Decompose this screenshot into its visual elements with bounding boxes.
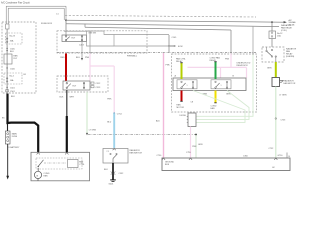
- relay1 top bus: [64, 30, 92, 32]
- fuse No.23 (dashed): [6, 33, 23, 44]
- pale green net: [193, 55, 253, 123]
- relay2 output dark wire: [66, 90, 68, 116]
- svg-text:FIREWALL: FIREWALL: [127, 55, 138, 58]
- connector with flag: [272, 78, 280, 87]
- svg-text:GRN: GRN: [267, 67, 272, 69]
- svg-text:FAN MOTOR: FAN MOTOR: [284, 82, 296, 85]
- svg-text:RED: RED: [60, 57, 65, 59]
- drop to green at x253: [252, 27, 254, 55]
- svg-text:RELAY: RELAY: [176, 60, 183, 63]
- diode box: [188, 113, 196, 127]
- black wire BLK: [8, 94, 39, 153]
- yellow-green output of right relay: [275, 57, 277, 63]
- black branch to fusible link: [7, 124, 9, 131]
- bus B: [66, 24, 279, 27]
- svg-text:BLU: BLU: [107, 122, 111, 124]
- condenser fan motor box: [31, 152, 90, 181]
- long pink wire: [163, 53, 165, 158]
- green wire into relay4: [215, 62, 217, 80]
- svg-text:GRN: GRN: [226, 94, 231, 96]
- fuse No.52: [269, 31, 276, 39]
- wire below fusible link: [7, 144, 9, 177]
- svg-text:BLU: BLU: [76, 57, 80, 59]
- relay2 lt green output: [86, 92, 88, 134]
- svg-text:BLK: BLK: [11, 96, 15, 98]
- junction C: [113, 112, 115, 114]
- drop at x169 with connector: [168, 35, 170, 52]
- svg-text:CTRL: CTRL: [79, 164, 85, 166]
- svg-text:RELAY BOX: RELAY BOX: [237, 64, 249, 67]
- entry chevron 1: [37, 153, 40, 155]
- svg-text:FAN: FAN: [44, 175, 48, 178]
- svg-text:No.23: No.23: [10, 36, 16, 38]
- junction dot on dash-dot: [195, 134, 197, 136]
- svg-text:1: 1: [221, 85, 222, 87]
- svg-text:A/C Condenser Fan Circuit: A/C Condenser Fan Circuit: [1, 2, 30, 5]
- svg-text:PNK: PNK: [107, 98, 112, 100]
- svg-text:GRN: GRN: [198, 144, 203, 146]
- svg-text:BLK: BLK: [10, 51, 14, 53]
- fuse No.4 (dashed): [4, 73, 22, 84]
- junction steps: [87, 31, 170, 35]
- svg-text:BLK: BLK: [60, 96, 64, 98]
- yellow wire out of relay4: [215, 91, 217, 103]
- relay2 dashed box: [57, 76, 108, 92]
- wire in fuse box: [6, 29, 8, 93]
- relay2 side terminals: [91, 82, 94, 84]
- svg-text:FAN: FAN: [211, 107, 215, 110]
- svg-text:RLY: RLY: [72, 38, 76, 40]
- svg-text:TO BATTERY: TO BATTERY: [7, 146, 20, 149]
- svg-text:BUS: BUS: [165, 164, 170, 166]
- svg-text:PNK: PNK: [166, 64, 171, 66]
- fusible link: [5, 131, 10, 144]
- yellow-green wire into relay3: [181, 63, 183, 80]
- bus A: [66, 20, 286, 22]
- drop to center box at x231: [230, 30, 232, 53]
- radiator fan switch box: [103, 149, 128, 164]
- connector C501: [6, 87, 7, 88]
- svg-text:PNK: PNK: [85, 57, 90, 59]
- relay2 body: [63, 81, 90, 90]
- relay1 right pin stub: [81, 42, 83, 54]
- arrow end: [6, 176, 9, 180]
- svg-text:FUSE: FUSE: [12, 136, 18, 138]
- svg-text:DIODE: DIODE: [180, 115, 187, 117]
- svg-text:PNK: PNK: [192, 146, 197, 148]
- svg-text:ECM: ECM: [178, 46, 183, 48]
- svg-text:2 1: 2 1: [107, 151, 110, 153]
- svg-text:RLY: RLY: [73, 85, 77, 87]
- relay3 body: [177, 80, 197, 89]
- BLU wire: [113, 113, 115, 148]
- svg-text:(UHFRB): (UHFRB): [286, 56, 295, 58]
- RED wire relay1 to relay2: [65, 54, 67, 82]
- svg-text:IGN SW: IGN SW: [89, 33, 96, 35]
- svg-text:RELAY: RELAY: [210, 59, 217, 62]
- svg-text:LT GRN: LT GRN: [89, 130, 97, 132]
- battery feed double wire: [6, 6, 66, 24]
- relay1 feed: [65, 20, 67, 31]
- PNK wire from relay1: [89, 53, 91, 81]
- svg-text:(COIL): (COIL): [281, 30, 287, 32]
- svg-text:WHT: WHT: [70, 96, 75, 98]
- relay in fuse box: [4, 54, 12, 64]
- svg-text:BLK: BLK: [104, 169, 108, 171]
- switch ground wire: [112, 163, 114, 180]
- svg-text:FAN SWITCH: FAN SWITCH: [130, 151, 143, 154]
- connector: [6, 67, 7, 68]
- dash-dot reference line lower: [88, 134, 196, 136]
- ground bar: [110, 179, 116, 181]
- PNK wire to fan switch: [113, 66, 115, 113]
- condenser fan relay (right, dashed): [262, 47, 284, 62]
- svg-text:1: 1: [187, 85, 188, 87]
- internal box: [68, 160, 79, 168]
- connector terminal: [6, 24, 9, 29]
- svg-text:LT GRN: LT GRN: [279, 94, 287, 96]
- under-hood fuse/relay box (center dashed): [172, 54, 257, 112]
- internal relay (dashed): [36, 158, 82, 169]
- fan relays big box: [173, 78, 246, 91]
- relay1 body: [62, 35, 87, 42]
- firewall dash-dot line: [57, 52, 257, 54]
- connector C505: [6, 48, 7, 49]
- pink net inside center box: [230, 53, 232, 67]
- under-dash fuse/relay box (dashed): [2, 22, 36, 93]
- svg-text:PNK: PNK: [225, 58, 230, 60]
- svg-text:FUSE BOX: FUSE BOX: [41, 23, 53, 25]
- bottom ground bus box: [162, 158, 290, 171]
- relay1 dashed box: [57, 31, 147, 53]
- wire from dot to ground bus: [195, 135, 197, 158]
- dashed reference bus: [65, 15, 256, 17]
- svg-text:MOTOR: MOTOR: [177, 107, 185, 109]
- motor M: [37, 168, 39, 171]
- pale pink from diode to bottom box: [190, 127, 192, 159]
- fuse drop at x272: [271, 22, 273, 31]
- red wire out of relay3: [181, 91, 183, 102]
- bus C: [84, 24, 86, 28]
- pale green long wire: [275, 87, 277, 159]
- entry chevron 2: [65, 153, 68, 155]
- relay4 body: [211, 80, 231, 89]
- svg-text:RLY: RLY: [14, 58, 18, 60]
- contact: [38, 166, 39, 167]
- inline connector: [111, 172, 116, 174]
